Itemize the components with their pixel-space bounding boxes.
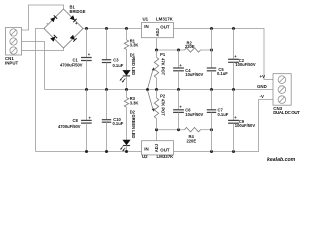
svg-text:INPUT: INPUT <box>5 61 18 66</box>
svg-text:P1: P1 <box>160 52 166 57</box>
svg-text:4700uF/50V: 4700uF/50V <box>60 63 83 68</box>
connector CN1 <box>5 28 22 66</box>
resistor R2 <box>185 40 201 52</box>
wire CN1 pin2 (CT) to ground rail <box>22 42 45 90</box>
svg-text:10uF/50V: 10uF/50V <box>185 112 203 117</box>
svg-text:kealab.com: kealab.com <box>267 157 296 163</box>
svg-text:IN: IN <box>144 146 148 151</box>
capacitor C4 <box>173 50 203 90</box>
junction GND / C1-C8 <box>85 88 88 91</box>
wire U1 OUT to +V <box>174 29 274 80</box>
wire U2 ADJ <box>156 130 158 141</box>
svg-text:OUT: OUT <box>160 24 170 29</box>
junction ADJ2 / P2 <box>155 128 158 131</box>
svg-text:RED LED: RED LED <box>131 57 136 75</box>
wire top rail (bridge + to U1 IN) <box>83 28 142 30</box>
junction -rail / C8 <box>85 150 88 153</box>
junction GND / D1-R3 <box>125 88 128 91</box>
junction ADJ / C4 <box>177 49 180 52</box>
svg-text:+V: +V <box>260 74 266 79</box>
svg-text:GND: GND <box>257 84 267 89</box>
svg-text:220E: 220E <box>187 138 197 143</box>
svg-text:OUT: OUT <box>160 147 170 152</box>
svg-text:47K POT: 47K POT <box>161 99 166 117</box>
junction -rail / D2 <box>125 150 128 153</box>
wire OUT to C5 <box>211 29 213 51</box>
junction +rail / R1 <box>125 27 128 30</box>
resistor R4 <box>185 127 201 143</box>
junction GND / C2-C9 <box>232 88 235 91</box>
regulator U1 LM317K <box>142 16 174 37</box>
capacitor C5 <box>207 50 228 90</box>
LED D1 <box>120 49 136 90</box>
svg-text:DUAL DC OUT: DUAL DC OUT <box>273 110 300 115</box>
potentiometer P1 <box>148 50 166 90</box>
wire bridge minus to bottom rail <box>36 29 45 152</box>
junction -OUT rail / C9 branch <box>232 150 235 153</box>
junction R4 / OUT branch <box>210 128 213 131</box>
diode D (bridge bottom-right) <box>70 35 77 42</box>
capacitor C2 <box>228 29 256 90</box>
diode D (bridge top-left) <box>50 15 57 22</box>
connector CN3 <box>273 74 300 115</box>
wire U2 OUT to -V <box>174 100 274 152</box>
svg-text:LM317K: LM317K <box>156 16 174 21</box>
junction -rail / C10 <box>105 150 108 153</box>
wire CN1 pin3 to bridge AC bottom <box>22 48 64 51</box>
junction OUT rail / C2 branch <box>232 27 235 30</box>
wire U1 ADJ <box>156 38 158 50</box>
svg-text:220E: 220E <box>185 44 195 49</box>
svg-text:-V: -V <box>260 94 264 99</box>
svg-text:0.1uF: 0.1uF <box>218 112 229 117</box>
svg-text:0.1uF: 0.1uF <box>217 71 228 76</box>
junction +rail / C1 <box>85 27 88 30</box>
svg-text:0.1uF: 0.1uF <box>113 121 124 126</box>
svg-text:100uF/50V: 100uF/50V <box>235 62 256 67</box>
junction GND / C5-C7 <box>210 88 213 91</box>
svg-text:C3: C3 <box>113 58 119 63</box>
svg-text:47K POT: 47K POT <box>161 58 166 76</box>
capacitor C8 <box>58 90 92 152</box>
svg-text:3.3K: 3.3K <box>130 100 139 105</box>
junction GND / P1-P2 <box>155 88 158 91</box>
junction ADJ / P1 <box>155 49 158 52</box>
wire C7/R4 node to OUT rail <box>211 130 213 152</box>
svg-text:ADJ: ADJ <box>155 28 160 36</box>
junction +rail / C3 <box>105 27 108 30</box>
svg-text:U2: U2 <box>142 154 148 159</box>
LED D2 <box>120 107 136 151</box>
svg-text:0.1uF: 0.1uF <box>113 63 124 68</box>
svg-text:ADJ: ADJ <box>154 144 159 152</box>
junction GND / C3-C10 <box>105 88 108 91</box>
svg-text:IN: IN <box>144 24 148 29</box>
svg-text:LM337K: LM337K <box>157 154 175 159</box>
ground rail <box>45 89 274 91</box>
capacitor C9 <box>228 90 255 152</box>
svg-text:U1: U1 <box>143 16 149 21</box>
potentiometer P2 <box>148 90 166 130</box>
capacitor C1 <box>60 29 92 90</box>
svg-text:GREEN LED: GREEN LED <box>131 115 136 139</box>
junction R2 / OUT branch <box>210 49 213 52</box>
svg-text:100uF/50V: 100uF/50V <box>235 123 256 128</box>
capacitor C7 <box>207 90 229 130</box>
resistor R1 <box>124 29 138 50</box>
svg-text:4700uF/50V: 4700uF/50V <box>58 124 81 129</box>
svg-text:BRIDGE: BRIDGE <box>70 9 86 14</box>
svg-text:C8: C8 <box>73 118 79 123</box>
capacitor C3 <box>102 29 124 90</box>
junction OUT rail / C5 branch <box>210 27 213 30</box>
diode D (bridge top-right) <box>70 15 77 22</box>
regulator U2 LM337K <box>142 141 175 159</box>
svg-text:3.3K: 3.3K <box>130 43 139 48</box>
bottom rail <box>36 151 142 153</box>
capacitor C6 <box>173 90 203 130</box>
junction GND / pot wipers <box>146 88 149 91</box>
svg-text:10uF/50V: 10uF/50V <box>185 72 203 77</box>
junction GND / C4-C6 <box>177 88 180 91</box>
junction -OUT rail / C7 branch <box>210 150 213 153</box>
resistor R3 <box>124 90 138 108</box>
diode D (bridge bottom-left) <box>50 35 57 42</box>
bridge B1 <box>44 5 86 48</box>
wire CN1 pin1 to bridge AC top <box>22 5 64 30</box>
capacitor C10 <box>102 90 124 152</box>
junction ADJ2 / C6 <box>177 128 180 131</box>
